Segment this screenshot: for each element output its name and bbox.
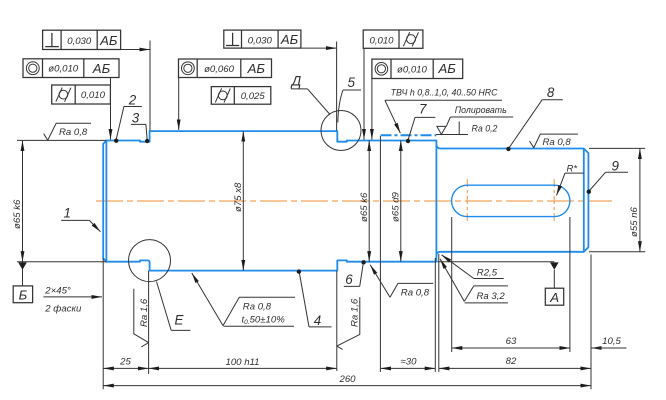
- dimension Ø65 k6 left: [22, 140, 24, 261]
- svg-text:АБ: АБ: [99, 33, 118, 48]
- svg-text:АБ: АБ: [92, 61, 111, 76]
- svg-text:R2,5: R2,5: [477, 268, 498, 279]
- frame F8 concentricity right: [372, 59, 463, 140]
- svg-text:10,5: 10,5: [602, 336, 621, 347]
- svg-text:0,010: 0,010: [369, 35, 394, 46]
- svg-text:ø0,010: ø0,010: [397, 64, 428, 75]
- svg-text:25: 25: [119, 357, 131, 368]
- svg-text:≈30: ≈30: [401, 356, 418, 367]
- roughness Ra 0,8 t50 bottom: [192, 273, 223, 326]
- svg-text:Ra 0,2: Ra 0,2: [472, 123, 498, 133]
- svg-text:ø65 k6: ø65 k6: [12, 199, 23, 229]
- roughness Ra 0,8 left: [44, 123, 91, 140]
- extension line shoulder right: [336, 42, 338, 131]
- svg-text:ø0,060: ø0,060: [204, 64, 235, 75]
- roughness Ra 1,6 right rotated: [337, 297, 360, 349]
- frame F5 concentricity: [179, 59, 272, 130]
- roughness Ra 0,8 d9 bottom: [370, 265, 390, 298]
- svg-text:Ra 0,8: Ra 0,8: [243, 302, 272, 313]
- svg-text:Д: Д: [290, 74, 302, 89]
- dimension ~30: [380, 367, 435, 369]
- centerline axis: [96, 200, 612, 202]
- dimension 260: [103, 385, 591, 387]
- detail circle D: [321, 111, 361, 151]
- dimension 82: [439, 367, 591, 369]
- svg-text:0,025: 0,025: [241, 91, 266, 102]
- svg-text:7: 7: [419, 101, 427, 116]
- chamfer line left: [105, 141, 107, 262]
- svg-text:2×45°: 2×45°: [44, 286, 71, 297]
- svg-text:63: 63: [506, 336, 517, 347]
- svg-text:АБ: АБ: [280, 32, 299, 47]
- roughness Ra 3,2: [440, 259, 464, 302]
- svg-text:0,030: 0,030: [67, 36, 92, 47]
- dimension Ø75 x8: [242, 131, 244, 271]
- dimension Ø65 k6 right: [368, 140, 370, 261]
- svg-text:5: 5: [348, 75, 356, 90]
- svg-text:8: 8: [547, 85, 555, 100]
- frame F6 cylindricity: [211, 87, 270, 105]
- svg-text:82: 82: [506, 356, 517, 367]
- svg-text:2: 2: [128, 93, 137, 108]
- dimension Ø65 d9: [400, 140, 402, 261]
- svg-text:260: 260: [338, 374, 356, 385]
- svg-text:ø65 d9: ø65 d9: [390, 191, 401, 222]
- chamfer line right end: [583, 149, 585, 252]
- svg-text:6: 6: [345, 272, 353, 287]
- svg-text:ø65 k6: ø65 k6: [359, 192, 370, 222]
- hardening zone line: [381, 134, 437, 136]
- extension lines Ø65 left: [17, 140, 106, 261]
- shaft section Ø55: [436, 145, 588, 256]
- svg-text:Ra 0,8: Ra 0,8: [543, 137, 572, 148]
- keyway centerline left: [466, 179, 468, 223]
- frame F2 concentricity: [23, 59, 119, 140]
- roughness Ra 0,8 top right: [530, 134, 578, 148]
- svg-text:АБ: АБ: [438, 61, 457, 76]
- svg-text:Ra 3,2: Ra 3,2: [477, 291, 506, 302]
- datum B box: [13, 286, 32, 303]
- svg-text:Б: Б: [19, 288, 28, 303]
- svg-text:t0.50±10%: t0.50±10%: [242, 314, 286, 326]
- keyway centerline right: [553, 179, 555, 223]
- extension lines bottom: [102, 258, 104, 389]
- svg-text:Ra 1,6: Ra 1,6: [349, 298, 360, 327]
- frame F4 perpendicularity: [224, 30, 337, 48]
- svg-text:0,010: 0,010: [81, 90, 106, 101]
- svg-text:ø75 x8: ø75 x8: [233, 182, 244, 212]
- dimension 10,5: [545, 347, 570, 349]
- dimension 25: [103, 367, 148, 369]
- svg-text:ТВЧ h 0,8..1,0, 40..50 HRC: ТВЧ h 0,8..1,0, 40..50 HRC: [391, 88, 498, 98]
- svg-text:1: 1: [64, 206, 71, 221]
- roughness Ra 1,6 left rotated: [134, 289, 149, 347]
- keyway slot: [452, 185, 570, 216]
- svg-text:0,030: 0,030: [248, 36, 273, 47]
- dimension 100 h11: [149, 367, 337, 369]
- svg-text:ø0,010: ø0,010: [48, 64, 79, 75]
- svg-text:Е: Е: [175, 313, 185, 328]
- svg-text:4: 4: [314, 313, 321, 328]
- datum A arm: [438, 261, 555, 263]
- svg-text:Ra 0,8: Ra 0,8: [59, 127, 88, 138]
- svg-text:9: 9: [612, 158, 620, 173]
- svg-text:3: 3: [132, 111, 140, 126]
- dimension 63: [452, 347, 570, 349]
- svg-text:2 фаски: 2 фаски: [44, 303, 82, 314]
- dimension Ø55 n6: [589, 148, 645, 251]
- svg-text:АБ: АБ: [247, 61, 266, 76]
- detail circle E: [129, 240, 171, 282]
- frame F1 perpendicularity: [43, 30, 150, 49]
- frame F3 cylindricity: [52, 85, 111, 104]
- datum B triangle: [18, 262, 27, 269]
- svg-text:Ra 0,8: Ra 0,8: [401, 287, 430, 298]
- frame F7 cylindricity right: [363, 30, 423, 140]
- svg-text:100 h11: 100 h11: [226, 357, 260, 368]
- svg-text:ø55 n6: ø55 n6: [629, 206, 640, 237]
- shaft outline: [103, 131, 588, 271]
- svg-text:А: А: [549, 290, 559, 305]
- svg-text:Полировать: Полировать: [455, 105, 507, 115]
- extension line shoulder left: [149, 41, 151, 131]
